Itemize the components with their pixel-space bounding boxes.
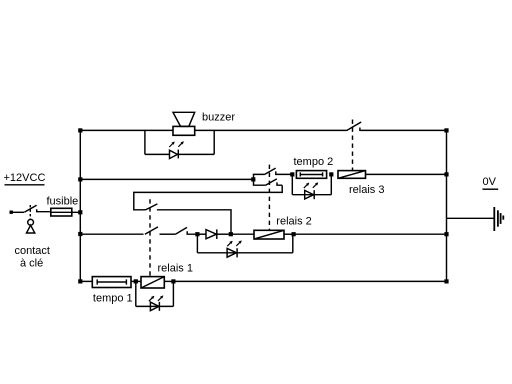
buzzer BZ1 horn xyxy=(173,112,195,126)
fuse F1 body xyxy=(51,208,72,216)
label tempo 2 xyxy=(294,156,334,168)
node bottom dot1 xyxy=(134,279,138,283)
switch S-K2b blade xyxy=(265,179,277,186)
timer T1 inner symbol xyxy=(97,279,126,284)
switch S-K1b blade xyxy=(146,204,158,210)
wire lower contact wrap to row4 xyxy=(134,185,282,210)
wire terminal to key switch xyxy=(12,211,24,213)
wire ground branch xyxy=(447,217,495,219)
switch S-K1a blade xyxy=(145,227,158,234)
label relais 2 xyxy=(276,216,311,228)
LED D5 arrow 1 xyxy=(149,297,153,301)
node left bus row4 dot xyxy=(78,232,82,236)
wire tempo2 LED loop left xyxy=(291,174,293,194)
svg-text:relais 3: relais 3 xyxy=(349,184,384,196)
key symbol circle xyxy=(28,219,34,225)
node left bus bottom dot xyxy=(78,279,82,283)
node tempo2 right dot xyxy=(329,172,333,176)
LED D1 arrow 2 xyxy=(178,143,182,147)
svg-text:0V: 0V xyxy=(483,176,497,188)
buzzer BZ1 body xyxy=(173,126,195,135)
LED D3 arrow 2 xyxy=(313,184,317,188)
wire row4 right segment xyxy=(294,233,447,235)
node bottom right bus dot xyxy=(444,279,448,283)
relay coil K2 body xyxy=(254,230,284,239)
wire row2 right segment xyxy=(366,173,447,175)
switch S1 contact a cle blade xyxy=(24,205,36,212)
ground bar 4 xyxy=(502,216,504,220)
wire row2 left segment xyxy=(80,178,253,180)
switch S-K3 row1 blade xyxy=(347,122,362,131)
relay coil K1 body xyxy=(141,277,164,288)
LED D4 triangle xyxy=(227,248,236,257)
switch K1 link dashed xyxy=(149,199,151,276)
wire tempo1 to dot xyxy=(131,280,141,282)
wire coil K1 to dot2 xyxy=(164,280,173,282)
wire upper contact riser xyxy=(254,174,265,179)
node right bus top dot xyxy=(444,128,448,132)
node 0V label xyxy=(483,176,497,188)
timer T2 body xyxy=(296,171,326,179)
timer T2 inner symbol xyxy=(300,172,322,176)
wire dot2 to coil K2 xyxy=(231,233,254,235)
relay coil K3 diagonal xyxy=(338,171,366,179)
label contact à clé line2 xyxy=(20,258,43,270)
wire relais2 LED loop left xyxy=(196,234,198,253)
svg-text:fusible: fusible xyxy=(47,196,79,208)
wire bottom row left segment xyxy=(80,280,92,282)
wire tempo2 LED loop right xyxy=(330,174,332,194)
svg-text:relais 1: relais 1 xyxy=(158,262,193,274)
node 0V underline xyxy=(483,188,499,190)
node left bus top dot xyxy=(78,128,82,132)
wire tempo2 LED loop bottom xyxy=(292,194,331,196)
switch S1 link dashed xyxy=(29,205,31,219)
LED D5 triangle xyxy=(150,302,159,311)
key symbol triangle xyxy=(27,225,35,233)
LED D3 triangle xyxy=(305,190,314,199)
diode D2 anode wire xyxy=(197,233,206,235)
switch S-K1b fixed and wire to diode node xyxy=(157,210,231,234)
svg-text:à clé: à clé xyxy=(20,258,43,270)
wire relais2 LED loop right xyxy=(292,234,294,253)
node +12VCC underline xyxy=(5,184,45,186)
relay coil K2 diagonal xyxy=(254,230,284,239)
wire bottom row right segment xyxy=(173,280,446,282)
switch S-K2a fixed contact xyxy=(276,171,293,174)
svg-text:relais 2: relais 2 xyxy=(276,216,311,228)
switch K2 link dashed xyxy=(268,165,270,230)
ground bar 1 xyxy=(493,207,495,231)
node left terminal xyxy=(10,211,13,214)
node row4 dot2 xyxy=(229,232,233,236)
svg-text:tempo 2: tempo 2 xyxy=(294,156,334,168)
switch S-K2b fixed contact xyxy=(277,182,282,185)
node left bus row2 dot xyxy=(78,177,82,181)
svg-text:+12VCC: +12VCC xyxy=(4,172,46,184)
LED D1 triangle xyxy=(170,150,178,158)
label buzzer xyxy=(202,112,235,124)
node row2 right bus dot xyxy=(444,172,448,176)
LED D4 arrow 2 xyxy=(236,242,240,246)
switch S1 fixed contact xyxy=(37,209,51,211)
wire row4 left segment xyxy=(80,233,143,235)
timer T1 body xyxy=(92,277,131,288)
switch S2 blade xyxy=(175,227,187,234)
wire relais1 LED loop left xyxy=(135,281,137,306)
relay coil K1 diagonal xyxy=(141,277,164,288)
node row4 dot1 xyxy=(195,232,199,236)
switch S-K3 link dashed xyxy=(352,120,354,171)
svg-text:contact: contact xyxy=(15,245,50,257)
LED D3 arrow 1 xyxy=(304,184,308,188)
LED D5 cathode bar xyxy=(158,302,160,311)
wire coil K2 to dot3 xyxy=(284,233,294,235)
label contact à clé line1 xyxy=(15,245,50,257)
label relais 3 xyxy=(349,184,384,196)
wire buzzer LED loop left xyxy=(144,130,146,154)
switch S-K3 fixed contact xyxy=(360,128,447,131)
wire relais2 LED loop bottom xyxy=(197,252,292,254)
LED D3 cathode bar xyxy=(313,190,315,199)
diode D2 triangle xyxy=(206,230,216,239)
label tempo 1 xyxy=(93,292,133,304)
node row4 right bus dot xyxy=(444,232,448,236)
switch S-K2a blade xyxy=(264,168,275,175)
wire row1 mid segment xyxy=(195,129,347,131)
ground bar 3 xyxy=(500,213,502,224)
LED D1 arrow 1 xyxy=(169,143,173,147)
wire diode to dot2 xyxy=(217,233,231,235)
node bottom dot2 xyxy=(171,279,175,283)
wire row1 left segment xyxy=(80,129,173,131)
LED D4 arrow 1 xyxy=(227,242,231,246)
switch S2 fixed contact xyxy=(187,231,197,234)
label fusible xyxy=(47,196,79,208)
LED D4 cathode bar xyxy=(236,248,238,257)
node row4 dot3 xyxy=(292,232,296,236)
node row2 split dot xyxy=(251,177,255,181)
diode D2 cathode bar xyxy=(216,229,218,239)
fuse F1 through wire xyxy=(51,211,81,213)
wire relais1 LED loop right xyxy=(172,281,174,306)
node fuse-bus junction dot xyxy=(78,210,82,214)
relay coil K3 body xyxy=(338,171,366,179)
node tempo2 left dot xyxy=(290,172,294,176)
wire buzzer LED loop bottom right xyxy=(178,153,214,155)
wire buzzer LED loop bottom left xyxy=(145,153,170,155)
LED D5 arrow 2 xyxy=(158,297,162,301)
wire lower contact drop xyxy=(254,179,266,185)
svg-text:buzzer: buzzer xyxy=(202,112,235,124)
svg-text:tempo 1: tempo 1 xyxy=(93,292,133,304)
ground bar 2 xyxy=(497,210,499,226)
LED D1 cathode bar xyxy=(177,150,179,159)
node +12VCC label xyxy=(4,172,46,184)
label relais 1 xyxy=(158,262,193,274)
wire left bus vertical xyxy=(79,130,81,281)
wire buzzer LED loop right xyxy=(213,130,215,154)
wire relais1 LED loop bottom xyxy=(136,305,174,307)
switch S-K1a fixed contact xyxy=(160,233,176,235)
wire right bus vertical xyxy=(446,130,448,281)
